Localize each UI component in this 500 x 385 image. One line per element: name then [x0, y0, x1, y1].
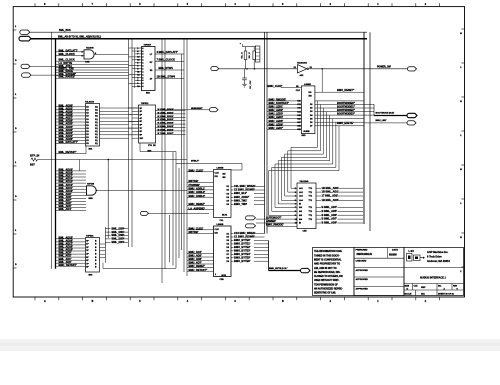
wire BMU_LED2' — [267, 111, 301, 113]
svg-text:MSTRB': MSTRB' — [189, 179, 199, 183]
svg-text:BMU_BYTE0': BMU_BYTE0' — [234, 238, 251, 242]
title box divider — [404, 267, 464, 269]
svg-text:RUNB: RUNB — [304, 131, 311, 133]
wire BMU_BYTE6' — [231, 260, 234, 262]
wire BMU_KONTAKT' — [267, 104, 301, 106]
wire BML_ADD row 3 — [316, 199, 321, 201]
ground symbol — [242, 83, 247, 85]
wire BMU_ADRV' — [231, 196, 234, 198]
junction dots pullups — [246, 68, 248, 70]
svg-text:BML_AD (0 TO 31, BML_AD(0:31): BML_AD (0 TO 31, BML_AD(0:31) BL2 — [58, 36, 102, 39]
wire BML_AD22' — [56, 133, 86, 135]
wire BML_AD4' — [56, 210, 86, 212]
svg-text:L M I: L M I — [409, 250, 415, 253]
wire B03 out 3 — [155, 69, 184, 71]
wire BMU_LED3' — [267, 114, 301, 116]
vertical wire I — [175, 164, 177, 269]
wire MTBL drop — [241, 164, 243, 171]
wire BML_RAKE2' — [56, 77, 129, 79]
svg-text:D3: D3 — [310, 111, 312, 113]
resistor B07 BTP_IN — [31, 158, 38, 161]
svg-text:BMU_EXETE': BMU_EXETE' — [337, 121, 354, 125]
svg-text:LS66B: LS66B — [304, 84, 311, 86]
svg-text:74F521: 74F521 — [86, 234, 94, 237]
svg-text:LMI, AND IS NOT TO: LMI, AND IS NOT TO — [314, 267, 337, 270]
IC B00 74F521 comparator — [139, 105, 156, 143]
svg-text:BML_I202': BML_I202' — [112, 233, 125, 237]
svg-text:B: B — [92, 300, 94, 303]
border zone tick marks top — [34, 3, 36, 6]
wire B00 output 6 — [156, 130, 186, 132]
svg-text:B BML_AD4': B BML_AD4' — [322, 205, 338, 209]
connector P3 — [21, 64, 30, 68]
svg-text:BMU_TM0': BMU_TM0' — [234, 202, 248, 206]
svg-text:B: B — [282, 300, 284, 303]
wire BML_AD19' — [56, 170, 86, 172]
svg-text:BMU_RESET'': BMU_RESET'' — [337, 88, 355, 92]
svg-text:BMU_LED': BMU_LED' — [376, 120, 388, 122]
svg-text:BMU_ADRL2': BMU_ADRL2' — [189, 190, 206, 194]
svg-text:BMU_LED2': BMU_LED2' — [269, 108, 284, 112]
svg-text:BMU_CLK2': BMU_CLK2' — [189, 168, 204, 172]
connector NUBUSNXT — [210, 108, 219, 112]
wire B00 output 4 — [156, 123, 186, 125]
svg-text:D2: D2 — [310, 108, 312, 110]
svg-text:B BML_AD6': B BML_AD6' — [322, 213, 338, 217]
vertical wire H — [172, 152, 174, 266]
connector P2 BML_AD bus (bold) — [19, 36, 31, 41]
wire BOOTMODE collector — [373, 104, 375, 115]
svg-text:BOOTMODE0'': BOOTMODE0'' — [337, 101, 355, 105]
svg-text:BMU_RESET': BMU_RESET' — [189, 202, 206, 206]
svg-text:CAT.: CAT. — [414, 284, 419, 287]
wire gate B0B output — [97, 189, 187, 191]
IC B06 74F521 comparator — [86, 238, 100, 273]
connector BMU_BYTE — [301, 268, 311, 272]
wires C3B to BMU_BYTE collector — [254, 233, 265, 235]
svg-text:3: 3 — [295, 192, 296, 194]
scale/sheet row — [415, 290, 417, 296]
wire BML_AD5' — [56, 207, 86, 209]
wire BMU_CLK2' — [187, 229, 214, 231]
wire fan E3D to C5D (nested bends) — [291, 101, 317, 188]
wire from P4 — [31, 74, 58, 76]
wire BMU_CLK2' — [187, 171, 214, 173]
wire POWER_ON net — [309, 68, 408, 70]
wire B03 out 4 — [155, 78, 184, 80]
svg-text:10P: 10P — [140, 138, 144, 140]
svg-text:AN AUTHORIZED REPRE-: AN AUTHORIZED REPRE- — [314, 288, 343, 291]
IC C2L LS668 counter — [214, 170, 232, 218]
wire B03 out 2 — [155, 61, 184, 63]
wire BMU_BYTE2' — [231, 246, 234, 248]
svg-text:BMU_BLV': BMU_BLV' — [234, 191, 247, 195]
svg-text:MTBL/T': MTBL/T' — [191, 161, 200, 163]
connector J2B strip — [255, 46, 260, 62]
wire BMU_AD5' — [187, 256, 214, 258]
wire B00 output L-path — [140, 143, 176, 164]
wire E3D output row 7 — [315, 125, 364, 127]
vertical wire J — [178, 168, 180, 258]
svg-text:6 Tech Drive: 6 Tech Drive — [427, 256, 442, 259]
vertical bus line B bold (from BML_AD) — [55, 39, 57, 269]
connector BOOTMODE — [407, 113, 417, 117]
wire BMU_ADRL3' — [187, 196, 214, 198]
svg-text:BMU_ADRL1': BMU_ADRL1' — [189, 187, 206, 191]
wire BMU_AD4' — [187, 253, 214, 255]
wire E3D output row 4 — [315, 114, 364, 116]
wire BML_CLOCK — [56, 60, 129, 62]
wire BMU_TM0' — [231, 203, 234, 205]
wire BML_AD17' — [56, 244, 86, 246]
title block notice box — [313, 248, 355, 296]
connector arrow mid 2 — [246, 224, 256, 228]
gate B0B 74F199 AND — [87, 186, 97, 195]
svg-text:POWER_ON': POWER_ON' — [377, 67, 391, 69]
connector mid net — [211, 67, 219, 71]
svg-text:C2 BMU_RD/WR': C2 BMU_RD/WR' — [234, 188, 255, 192]
svg-text:THE INFORMATION CON-: THE INFORMATION CON- — [314, 250, 342, 253]
wire MSTRB' — [187, 181, 214, 183]
wire BML_RAKE — [56, 72, 129, 74]
svg-text:C12: C12 — [297, 104, 301, 106]
svg-text:Andover, MA 01810: Andover, MA 01810 — [427, 260, 450, 263]
svg-text:MBL_1K: MBL_1K — [241, 51, 243, 58]
svg-text:BOOTMODE2'': BOOTMODE2'' — [337, 108, 355, 112]
svg-text:C17: C17 — [297, 122, 301, 124]
wire BML_ADD row 0 — [316, 187, 321, 189]
svg-text:BMU_CLK2': BMU_CLK2' — [189, 226, 204, 230]
wire B00 output 7 — [156, 133, 186, 135]
wire LA_ASPEND' — [187, 209, 214, 211]
buffer A22 74AS1004 — [298, 65, 307, 73]
bus wire BML_AD(0:31) — [31, 38, 367, 40]
svg-text:CHECKED: CHECKED — [356, 260, 367, 262]
svg-text:AND PROPRIETARY TO: AND PROPRIETARY TO — [314, 263, 340, 266]
vertical wire BTP junction drop — [107, 160, 109, 239]
svg-text:REF: REF — [421, 287, 426, 289]
svg-text:BML_AD4': BML_AD4' — [59, 207, 72, 211]
svg-text:SENTATIVE OF LMI.: SENTATIVE OF LMI. — [314, 292, 336, 295]
resistor R02 MBL_1K — [253, 47, 255, 51]
wire E3D output row 6 — [315, 121, 364, 123]
svg-text:BOOTMODE3'': BOOTMODE3'' — [337, 112, 355, 116]
svg-text:1B BML_AD3': 1B BML_AD3' — [322, 198, 339, 202]
vertical wire J2 — [181, 54, 183, 250]
svg-text:D7: D7 — [310, 125, 312, 127]
wire E3D output row 2 — [315, 107, 364, 109]
svg-text:APPROVED: APPROVED — [356, 288, 369, 291]
vertical stub line B03 — [134, 48, 136, 88]
svg-text:7: 7 — [295, 207, 296, 209]
wire E3D output row 0 — [315, 100, 364, 102]
svg-text:MBL_1K: MBL_1K — [249, 51, 251, 58]
wire B00 output 1 — [156, 113, 186, 115]
wire BML_RAKEW' — [56, 75, 129, 77]
svg-text:C2L BMU_WRES': C2L BMU_WRES' — [234, 184, 256, 188]
wire BML_AD29' — [56, 112, 86, 114]
wire BML_AD11' — [56, 188, 86, 190]
svg-text:BMU_AD6': BMU_AD6' — [189, 257, 203, 261]
wire BML_ADD row 6 — [316, 214, 321, 216]
border zone tick marks right — [461, 28, 464, 30]
svg-text:C3B: C3B — [220, 279, 225, 281]
wire BML_AD13' — [56, 182, 86, 184]
wire BML_ADD row 8 — [316, 222, 321, 224]
svg-text:C19: C19 — [297, 129, 301, 131]
vertical bus line C — [128, 39, 130, 247]
svg-text:CLK: CLK — [215, 172, 220, 174]
svg-text:C1 BMU_RD/WR': C1 BMU_RD/WR' — [234, 235, 255, 239]
IC B06 right stubs — [100, 243, 106, 245]
wire BMU_ADRL2' — [187, 192, 214, 194]
wire BML_AD18' — [56, 173, 86, 175]
svg-text:IA2: IA2 — [299, 210, 302, 213]
connector POWER_ON — [408, 67, 417, 71]
svg-text:DMFRANKLIN: DMFRANKLIN — [357, 253, 373, 256]
svg-text:BMU_KONTAKT': BMU_KONTAKT' — [269, 101, 290, 105]
bus boundary right pair — [363, 32, 365, 224]
wire BMU_BYTE3' — [231, 250, 234, 252]
wire LA_RSTTG — [56, 63, 129, 65]
svg-text:ASMED': ASMED' — [266, 219, 276, 223]
svg-text:LS66B: LS66B — [217, 224, 224, 226]
svg-text:B 5 BML_I2OD5': B 5 BML_I2OD5' — [158, 126, 174, 128]
signature row APPROVED — [354, 285, 404, 287]
wire BMU_LED4' — [267, 118, 301, 120]
svg-text:B 3 BML_I2OD3': B 3 BML_I2OD3' — [158, 119, 174, 121]
wire E3D I20 row — [315, 91, 364, 93]
svg-text:D9: D9 — [227, 261, 229, 263]
wire BMU_BYTE4' — [231, 253, 234, 255]
wire B00 output 0 — [156, 110, 186, 112]
svg-text:BML_RAKE2': BML_RAKE2' — [59, 75, 76, 79]
wire E3D clk — [281, 87, 301, 89]
svg-text:B0B: B0B — [89, 198, 94, 200]
wire BML_ADD row 2 — [316, 195, 321, 197]
svg-text:C10 BMU_WRES': C10 BMU_WRES' — [234, 231, 256, 235]
svg-text:APPROVED: APPROVED — [356, 278, 369, 281]
bus wire BOOTMODE(0:3) — [374, 115, 407, 117]
wire BTP_IN net — [38, 159, 188, 161]
svg-text:74F198: 74F198 — [87, 182, 95, 185]
wire MSTRB' — [187, 233, 214, 235]
wire BML_DATLATT' — [56, 51, 84, 53]
svg-text:B07: B07 — [30, 162, 35, 166]
svg-text:USED WITHOUT WRIT-: USED WITHOUT WRIT- — [314, 280, 339, 282]
wire BML_AD28' — [56, 115, 86, 117]
wire BML_AD6' — [56, 203, 86, 205]
svg-text:BMU_LED4': BMU_LED4' — [269, 115, 284, 119]
wire power drop to I20 — [321, 69, 323, 92]
wire BMU_RMODE' — [267, 100, 301, 102]
wire BML_ADD row 7 — [316, 218, 321, 220]
wire E3D output row 5 — [315, 118, 364, 120]
svg-text:C16: C16 — [297, 118, 301, 120]
svg-text:74LS273: 74LS273 — [85, 100, 95, 103]
wire BML_DATLATT' — [56, 142, 86, 144]
svg-text:NUBUSNXT: NUBUSNXT — [191, 108, 203, 110]
wire BMU_LED1' — [267, 107, 301, 109]
svg-text:BMU_BYTE2': BMU_BYTE2' — [234, 245, 251, 249]
svg-text:D6: D6 — [227, 204, 229, 206]
wire ITO/SMB' — [187, 185, 214, 187]
svg-text:D0B: D0B — [85, 61, 90, 63]
vertical BMU_BYTE collector — [268, 241, 270, 271]
svg-text:CLK: CLK — [296, 90, 301, 92]
svg-text:BMU_LED3': BMU_LED3' — [269, 112, 284, 116]
svg-text:E3D: E3D — [302, 135, 307, 137]
svg-text:74AS1004: 74AS1004 — [297, 61, 308, 64]
signature row CHECKED — [354, 267, 404, 269]
svg-text:74F521: 74F521 — [141, 102, 149, 105]
svg-text:BMU_AD5': BMU_AD5' — [189, 254, 203, 258]
signature row APPROVED — [354, 276, 404, 278]
vertical wire G — [169, 215, 171, 262]
svg-text:C5D: C5D — [303, 231, 308, 233]
wire BML_ADD row 1 — [316, 191, 321, 193]
vertical bus line K — [183, 39, 185, 272]
svg-text:LISP Machine Inc.: LISP Machine Inc. — [427, 251, 449, 254]
date header divider — [387, 248, 389, 259]
svg-text:B 7 BML_I2OD7': B 7 BML_I2OD7' — [158, 133, 174, 135]
wire B00 output 2 — [156, 116, 186, 118]
svg-text:BML_DTW1: BML_DTW1 — [159, 66, 174, 70]
wire BMU_AD7' — [187, 263, 214, 265]
svg-text:BML_BUS: BML_BUS — [59, 29, 71, 32]
IC B03 74F257 multiplexer — [142, 47, 156, 91]
signature row PREPARED — [354, 257, 404, 259]
wire E3D output row 3 — [315, 111, 364, 113]
scanner artifact band (bottom) — [0, 339, 500, 351]
wire BML_AD1' — [56, 259, 86, 261]
svg-text:2: 2 — [295, 188, 296, 190]
svg-text:D2: D2 — [227, 237, 229, 239]
svg-text:BML_I200': BML_I200' — [112, 226, 125, 230]
wire BMC_DETAST' — [56, 265, 86, 267]
svg-text:AUTOBOOT': AUTOBOOT' — [266, 215, 282, 219]
svg-text:BMU_BYTE (0 31 ': BMU_BYTE (0 31 ' — [269, 268, 288, 270]
resistor R01 MBL_1K — [245, 47, 247, 51]
svg-text:BMU_ADRV': BMU_ADRV' — [234, 195, 250, 199]
wire BML_AD26' — [56, 121, 86, 123]
svg-text:SCALE: SCALE — [405, 292, 412, 295]
svg-text:REV: REV — [453, 285, 458, 287]
wire BMU_BLV' — [231, 193, 234, 195]
title block signature column — [354, 248, 404, 296]
wire C2L BMU_WRES' — [231, 185, 234, 187]
svg-text:TEN PERMISSION OF: TEN PERMISSION OF — [314, 284, 338, 286]
svg-text:DATE: DATE — [392, 249, 398, 252]
vertical bus line F — [164, 39, 166, 269]
wire BML_AD8' — [56, 197, 86, 199]
vertical wire column2 feed — [79, 160, 81, 171]
svg-text:D3: D3 — [227, 240, 229, 242]
svg-text:A: A — [44, 300, 46, 303]
svg-text:BMU_BYTE4': BMU_BYTE4' — [234, 252, 251, 256]
vertical bus line D — [131, 39, 133, 247]
svg-text:B BML_AD8': B BML_AD8' — [322, 221, 338, 225]
svg-text:BMU_RESET': BMU_RESET' — [189, 264, 206, 268]
wire NUBUSNXT — [165, 109, 210, 111]
svg-text:BMU_LED6': BMU_LED6' — [269, 122, 284, 126]
wire BML_AD20' — [56, 139, 86, 141]
wire BMSTL_TA6 — [56, 69, 129, 71]
wire BMU_ADRL1' — [187, 189, 214, 191]
wire C1 BMU_RD/WR' — [231, 236, 234, 238]
wire BMU_LED5' — [267, 121, 301, 123]
wire BML_AD16' — [56, 241, 86, 243]
svg-text:I5D: I5D — [309, 95, 313, 97]
svg-text:BML_I203': BML_I203' — [112, 237, 125, 241]
wire C2 BMU_RD/WR' — [231, 189, 234, 191]
svg-text:BMU_LED5': BMU_LED5' — [269, 119, 284, 123]
wire B00 output 5 — [156, 127, 186, 129]
IC B01 74LS273 register — [86, 104, 100, 147]
connector P4 — [22, 73, 32, 77]
svg-text:BLV1: BLV1 — [222, 215, 228, 217]
IC C5D 74LS240 buffer — [297, 183, 316, 229]
IC C3B LS668 counter — [214, 226, 232, 277]
capacitor C01 .01UF — [244, 69, 246, 78]
svg-text:I2D: I2D — [215, 176, 219, 178]
IC E3D LS668 counter — [301, 86, 315, 134]
wire BML_AD9' — [56, 194, 86, 196]
svg-text:D6: D6 — [227, 251, 229, 253]
svg-text:CLK: CLK — [215, 229, 220, 231]
svg-text:D6: D6 — [310, 122, 312, 124]
svg-text:TAINED IN THIS DOCU-: TAINED IN THIS DOCU- — [314, 254, 340, 257]
wire to pullups and buffer A22 — [219, 68, 297, 70]
vertical bus line A (from BML_BUS) — [51, 32, 53, 269]
svg-text:BMU_BYTE5': BMU_BYTE5' — [234, 255, 251, 259]
connector LA_ASPEND input — [141, 211, 149, 215]
wire BMU_LED7' — [267, 128, 301, 130]
svg-text:MSTRB': MSTRB' — [189, 230, 199, 234]
svg-text:74F257: 74F257 — [144, 43, 152, 46]
svg-text:17 BML_AD2': 17 BML_AD2' — [322, 194, 339, 198]
svg-text:PREPARED: PREPARED — [356, 249, 368, 252]
vertical bus line E — [161, 39, 163, 283]
wire BML_ATA1 — [56, 66, 129, 68]
svg-text:BMU_LED1': BMU_LED1' — [269, 105, 284, 109]
wire BML_AD19' — [56, 250, 86, 252]
svg-text:1B BML_AD1': 1B BML_AD1' — [322, 190, 339, 194]
wire BMU_LED — [364, 122, 407, 124]
wire BMU_RMODE — [267, 225, 297, 227]
svg-text:BMU_BYTE6': BMU_BYTE6' — [234, 259, 251, 263]
svg-text:ITO/SMB': ITO/SMB' — [189, 183, 201, 187]
svg-text:1B BML_AD0': 1B BML_AD0' — [322, 186, 339, 190]
wire BMU_RESET' — [187, 267, 214, 269]
svg-text:BMU_LED7': BMU_LED7' — [269, 126, 284, 130]
connector BMU_LED — [407, 121, 416, 125]
wire BML_DETAST — [56, 153, 86, 155]
svg-text:BML_CLOCK: BML_CLOCK — [59, 52, 75, 56]
svg-text:BTP_IN: BTP_IN — [30, 154, 39, 158]
svg-text:BMU_RMODE': BMU_RMODE' — [269, 98, 287, 102]
wire BML_CLOCK — [56, 55, 84, 57]
svg-text:NUBUS INTERFACE 1: NUBUS INTERFACE 1 — [420, 277, 446, 280]
svg-text:BMU_ADRL3': BMU_ADRL3' — [189, 194, 206, 198]
svg-text:BML_I201': BML_I201' — [112, 230, 125, 234]
wire BML_AD14' — [56, 179, 86, 181]
svg-text:D2: D2 — [227, 190, 229, 192]
svg-text:BOOTMODE1'': BOOTMODE1'' — [337, 105, 355, 109]
wire MTBL — [176, 163, 242, 165]
wire BML_AD27' — [56, 118, 86, 120]
svg-text:B 4 BML_I2OD4': B 4 BML_I2OD4' — [158, 122, 174, 125]
